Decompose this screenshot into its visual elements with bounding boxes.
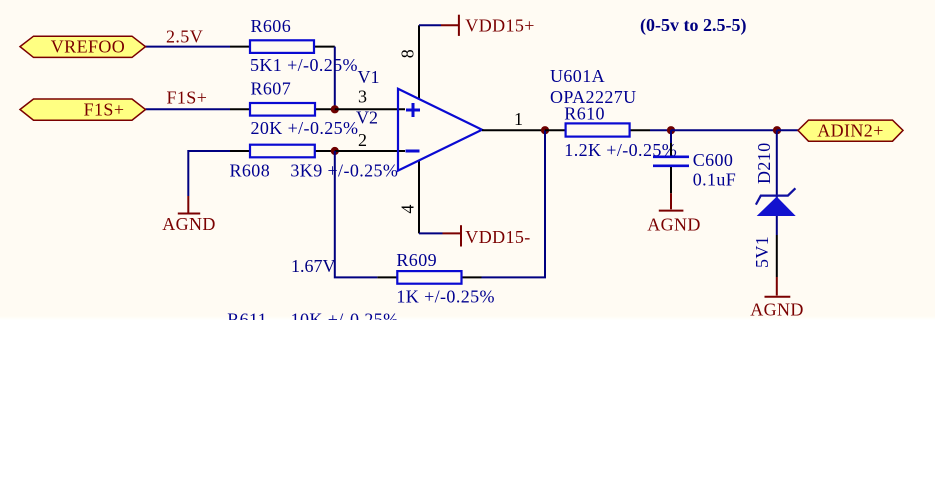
svg-text:R608: R608 (230, 160, 271, 180)
ground AGND (center) (659, 193, 684, 210)
resistor R610 (545, 123, 650, 136)
wire R606 to node V1 (334, 47, 336, 110)
svg-text:R611: R611 (227, 310, 267, 330)
svg-text:4: 4 (398, 205, 418, 214)
wire pin4 to VDD15- (419, 232, 443, 234)
svg-text:5K1 +/-0.25%: 5K1 +/-0.25% (250, 55, 358, 75)
resistor R608 (230, 145, 335, 158)
svg-text:1: 1 (514, 109, 523, 129)
svg-text:V1: V1 (358, 67, 380, 87)
op-amp minus input symbol (406, 150, 420, 153)
resistor R609 (377, 271, 481, 284)
svg-text:3K9 +/-0.25%: 3K9 +/-0.25% (290, 160, 398, 180)
svg-text:10K +/-0.25%: 10K +/-0.25% (291, 310, 399, 330)
svg-text:F1S+: F1S+ (167, 87, 208, 107)
svg-text:AGND: AGND (162, 214, 216, 234)
port ADIN2+ (798, 120, 903, 141)
svg-text:U601A: U601A (550, 66, 605, 86)
svg-text:20K +/-0.25%: 20K +/-0.25% (251, 118, 359, 138)
svg-text:0.1uF: 0.1uF (693, 169, 737, 189)
svg-text:D210: D210 (754, 142, 774, 184)
wire pin8 to VDD15+ (419, 24, 441, 26)
wire R608 left to ground (188, 151, 230, 196)
wire node V2 down to R609 (335, 151, 378, 277)
svg-text:F1S+: F1S+ (84, 99, 125, 119)
output pin 1 wire (482, 129, 545, 131)
capacitor C600 (653, 130, 689, 193)
svg-text:R606: R606 (251, 16, 292, 36)
node C600 junction (667, 126, 675, 134)
svg-text:AGND: AGND (750, 300, 804, 320)
node D210 junction (773, 126, 781, 134)
port F1S+ (20, 99, 146, 120)
pin 3 wire into op-amp (335, 108, 405, 110)
svg-text:ADIN2+: ADIN2+ (817, 121, 884, 141)
svg-text:VDD15-: VDD15- (465, 227, 530, 247)
op-amp U601A pin 4 (418, 161, 420, 234)
svg-text:2.5V: 2.5V (166, 26, 203, 46)
wire R610 to C600 node (650, 129, 671, 131)
svg-text:1.67V: 1.67V (291, 256, 336, 276)
op-amp U601A pin 8 (418, 25, 420, 99)
svg-text:V2: V2 (356, 108, 378, 128)
op-amp U1 triangle (398, 89, 482, 171)
svg-text:VDD15+: VDD15+ (465, 15, 535, 35)
svg-text:1K +/-0.25%: 1K +/-0.25% (396, 287, 495, 307)
pin 2 wire into op-amp (335, 150, 405, 152)
resistor R607 (230, 103, 335, 116)
svg-text:8: 8 (398, 49, 418, 58)
output node junction (541, 126, 549, 134)
svg-text:C600: C600 (693, 150, 734, 170)
wire F1S+ to R607 (146, 108, 231, 110)
ground AGND (left) (178, 196, 200, 214)
svg-text:AGND: AGND (647, 215, 701, 235)
svg-text:R609: R609 (396, 250, 437, 270)
port VREFOO (20, 36, 146, 57)
svg-text:R610: R610 (564, 104, 605, 124)
wire C600 node to D210 node (671, 129, 777, 131)
svg-text:R607: R607 (251, 79, 292, 99)
svg-text:3: 3 (358, 86, 367, 106)
node V1 junction (331, 105, 339, 113)
power symbol VDD15+ (441, 15, 459, 36)
svg-text:(0-5v to 2.5-5): (0-5v to 2.5-5) (640, 15, 746, 36)
op-amp plus input symbol (406, 103, 420, 117)
svg-text:VREFOO: VREFOO (51, 37, 125, 57)
wire D210 node to port ADIN2+ (777, 129, 798, 131)
resistor R606 (230, 40, 335, 53)
node V2 junction (331, 147, 339, 155)
wire VREFOO to R606 (146, 46, 231, 48)
wire feedback from output down to R609 (482, 130, 546, 277)
svg-text:2: 2 (358, 130, 367, 150)
power symbol VDD15- (443, 225, 462, 246)
zener diode D210 (756, 130, 796, 277)
ground AGND (right) (765, 277, 791, 297)
svg-text:5V1: 5V1 (752, 236, 772, 268)
